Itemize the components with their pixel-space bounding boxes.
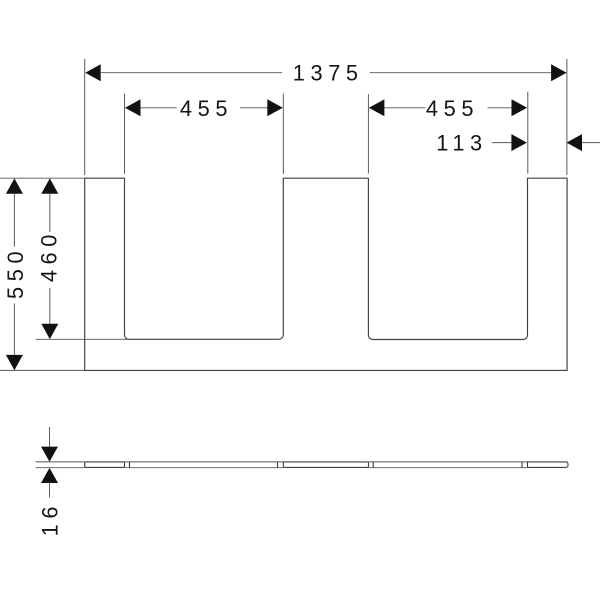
svg-text:460: 460 [37, 229, 62, 282]
extension line 455L right [282, 94, 284, 175]
profile tab rect right (rounded right end) [528, 462, 569, 468]
svg-text:113: 113 [436, 131, 488, 156]
arrow 113 inward-left [567, 134, 583, 151]
profile view: thin band lines [36, 461, 85, 463]
dim line 1375 [101, 72, 282, 74]
arrow 16 down [41, 447, 58, 462]
profile tab rect left [85, 462, 125, 468]
svg-text:1375: 1375 [293, 61, 364, 86]
tick before middle rect [277, 462, 279, 468]
extension line 455R left [367, 94, 369, 174]
tick after left rect [129, 462, 131, 468]
svg-text:455: 455 [180, 96, 233, 121]
extension line 1375 left [84, 59, 86, 175]
extension line 455L left [124, 94, 126, 175]
dim line 460 [49, 194, 51, 232]
dim 16 lower line [49, 483, 51, 498]
dim 16 upper line [49, 427, 51, 447]
arrow 550 down [6, 355, 23, 370]
svg-text:550: 550 [3, 246, 28, 299]
svg-text:16: 16 [38, 501, 63, 536]
arrow 455R left [369, 99, 385, 116]
profile tab rect middle [283, 462, 368, 468]
arrow 455R right [512, 99, 528, 116]
extension line top-left [0, 177, 85, 179]
extension line 1375 right [566, 59, 568, 175]
tick after middle rect [372, 462, 374, 468]
tick before right rect [521, 462, 523, 468]
svg-text:455: 455 [426, 96, 479, 121]
dim line 455 left [140, 107, 177, 109]
arrow 460 up [41, 178, 58, 193]
body outline (front view of console plate with two cutouts) [85, 178, 567, 370]
arrow 1375 right [551, 64, 567, 81]
arrow 460 down [41, 324, 58, 339]
dim line 550 [13, 194, 15, 247]
dim line 455 right [384, 107, 426, 109]
arrow 455L left [125, 99, 141, 116]
arrow 16 up [41, 468, 58, 483]
arrow 1375 left [85, 64, 101, 81]
extension line 455R right / 113 left [527, 92, 529, 174]
extension line 460 (cutout bottom) [36, 338, 130, 340]
arrow 455L right [267, 99, 283, 116]
extension line bottom-left [0, 369, 85, 371]
arrow 113 inward-right [511, 134, 527, 151]
leader 113 [492, 142, 511, 144]
arrow 550 up [6, 178, 23, 193]
